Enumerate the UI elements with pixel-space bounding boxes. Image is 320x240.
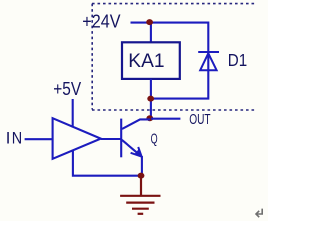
wire IN to buffer input bbox=[25, 138, 54, 140]
carriage-return mark bbox=[256, 209, 262, 218]
wire buffer output to transistor base bbox=[101, 138, 121, 140]
wire from relay coil bottom to collector node bbox=[150, 79, 152, 119]
svg-text:+5V: +5V bbox=[53, 79, 82, 99]
svg-text:D1: D1 bbox=[228, 50, 247, 70]
node junction collector (dot) bbox=[146, 115, 153, 121]
wire top rail from +24V to diode branch bbox=[131, 23, 209, 53]
svg-text:I: I bbox=[6, 129, 11, 148]
svg-text:Q: Q bbox=[151, 132, 158, 148]
wire +5V supply to buffer top bbox=[72, 99, 74, 128]
node junction mid (dot) bbox=[147, 96, 154, 102]
ground bbox=[120, 176, 160, 214]
buffer gate U1 (triangle amplifier) bbox=[53, 118, 101, 159]
dashed enclosure box bbox=[92, 4, 257, 110]
svg-text:OUT: OUT bbox=[189, 112, 211, 128]
wire emitter to ground node bbox=[141, 156, 143, 176]
wire from top rail down to relay coil bbox=[150, 23, 152, 43]
diode D1 bbox=[198, 52, 219, 70]
node junction top (dot) bbox=[146, 19, 153, 25]
wire diode branch vertical and bottom return bbox=[151, 53, 208, 99]
relay coil KA1 bbox=[122, 42, 180, 79]
wire OUT bbox=[151, 118, 181, 120]
svg-text:+24V: +24V bbox=[82, 11, 121, 32]
transistor Q bbox=[121, 119, 150, 158]
svg-text:KA1: KA1 bbox=[128, 51, 164, 72]
label IN bbox=[6, 129, 22, 148]
svg-text:N: N bbox=[12, 129, 22, 148]
transistor Q emitter arrowhead bbox=[131, 147, 142, 157]
node junction emitter ground (dot) bbox=[138, 173, 145, 179]
wire buffer ground pin to bottom rail bbox=[73, 150, 141, 176]
